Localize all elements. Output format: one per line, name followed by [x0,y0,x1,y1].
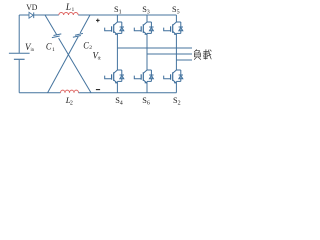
battery Vin long plate [9,52,30,54]
svg-text:VD: VD [26,2,37,12]
wire diagonal C1 lower [59,38,91,93]
wire top rail right (L1 to bridge) [78,14,176,16]
transistor S2 [164,70,183,81]
S5 emitter arrow [173,31,177,34]
wire S2 emitter to bottom rail [175,81,177,92]
transistor S6 [134,70,153,81]
S5 emitter arrowhead [174,33,177,35]
wire S1 collector stub [116,15,118,22]
label L1 [65,2,75,13]
svg-text:4: 4 [120,101,123,107]
capacitor C2 plate upper [75,33,83,35]
label S5 [172,5,180,16]
wire S5 emitter run to node c [175,33,177,60]
wire S1 emitter run to node a [116,33,118,48]
svg-text:1: 1 [119,9,122,15]
wire S6 emitter to bottom rail [146,81,148,92]
svg-text:1: 1 [72,7,75,13]
S6 emitter arrow [143,80,147,84]
wire phase c output [176,59,192,61]
transistor S3 [134,22,153,33]
svg-text:dc: dc [98,55,102,61]
svg-text:in: in [31,47,35,53]
wire S3 emitter run to node b [146,33,148,54]
label S2 [173,96,181,107]
label S1 [114,5,122,16]
wire phase b output [147,53,192,55]
wire bottom rail left [19,92,60,94]
label C2 [83,40,92,51]
S3 emitter arrow [143,31,147,34]
battery Vin positive lead [18,15,20,53]
label L2 [65,95,73,107]
S1 emitter arrowhead [115,33,118,35]
wire S6 collector run from node b [146,54,148,70]
inductor L1 coil [59,13,78,15]
label load 载 (hand drawn glyph) [203,50,211,60]
svg-text:1: 1 [52,47,55,53]
wire S2 collector run from node c [175,60,177,70]
S1 emitter arrow [114,31,118,34]
S3 emitter arrowhead [145,33,148,35]
S2 emitter arrow [173,80,177,84]
wire S4 collector run from node a [116,48,118,70]
battery Vin negative lead [18,60,20,93]
transistor S5 [164,22,183,33]
wire phase a output [117,47,192,49]
wire top rail left (battery to diode VD) [19,14,29,16]
svg-text:6: 6 [147,101,150,107]
wire top rail mid (diode VD to L1) [34,14,59,16]
capacitor C1 plate lower [52,36,60,38]
inductor L2 coil [61,90,79,93]
wire diagonal C2 upper [80,15,90,33]
label Vdc [93,50,102,61]
label C1 [46,42,55,53]
S4 emitter arrowhead [115,81,118,83]
S2 emitter arrowhead [174,81,177,83]
diode VD triangle [29,12,33,18]
svg-text:5: 5 [177,9,180,15]
svg-text:L: L [65,2,71,12]
svg-text:2: 2 [70,100,73,106]
wire S5 collector stub [175,15,177,22]
wire bottom rail right [79,92,177,94]
svg-text:2: 2 [178,101,181,107]
transistor S4 [105,70,124,81]
wire diagonal C2 lower [48,37,79,93]
transistor S1 [105,22,124,33]
diode VD cathode bar [33,12,35,18]
label load 负 (hand drawn glyph) [194,50,201,60]
wire diagonal C1 upper [45,15,57,35]
label S6 [142,96,150,107]
wire S4 emitter to bottom rail [116,81,118,92]
svg-text:3: 3 [147,9,150,15]
minus sign Vdc [96,89,100,91]
wire S3 collector stub [146,15,148,22]
plus sign Vdc [96,19,100,23]
S4 emitter arrow [114,80,118,84]
label S4 [115,96,123,107]
S6 emitter arrowhead [145,81,148,83]
label Vin [25,42,34,53]
label S3 [142,5,150,16]
battery Vin short plate [14,58,25,60]
capacitor C2 plate lower [73,36,81,38]
capacitor C1 plate upper [54,34,62,36]
